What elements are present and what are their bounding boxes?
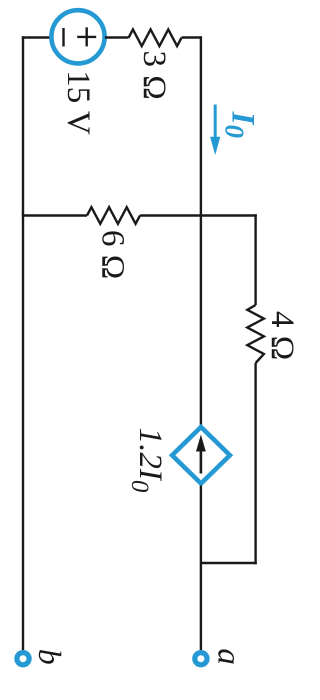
current direction arrow I0 (cyan, downward) bbox=[214, 105, 217, 139]
wire: right vertical down to diamond bbox=[200, 36, 202, 425]
wire: right branch vertical down to resistor R3 bbox=[254, 214, 256, 305]
wire: bottom joint horizontal back to main wire bbox=[201, 562, 257, 564]
wire: left vertical from top-left corner to terminal b bbox=[22, 36, 24, 650]
wire: middle horizontal right segment to right branch bbox=[140, 214, 257, 216]
svg-text:15 V: 15 V bbox=[60, 70, 96, 135]
voltage source V1 minus sign bbox=[62, 28, 64, 47]
wire: top horizontal, left stub to voltage source bbox=[22, 36, 51, 38]
svg-text:6 Ω: 6 Ω bbox=[95, 230, 131, 279]
resistor R1 3 ohm zigzag bbox=[129, 29, 182, 46]
svg-text:b: b bbox=[32, 649, 68, 665]
svg-text:a: a bbox=[210, 648, 246, 665]
voltage source V1 plus sign bbox=[77, 27, 96, 46]
terminal node b bbox=[17, 653, 29, 665]
wire: right branch below resistor down to bottom joint bbox=[254, 363, 256, 564]
wire: middle horizontal (6 ohm branch) left segment bbox=[22, 214, 87, 216]
resistor R3 4 ohm zigzag (vertical) bbox=[247, 305, 264, 363]
resistor R2 6 ohm zigzag bbox=[87, 207, 140, 224]
dependent current source I1 (diamond) bbox=[172, 427, 230, 484]
svg-text:4 Ω: 4 Ω bbox=[264, 311, 300, 360]
terminal node a bbox=[195, 653, 207, 665]
wire: main vertical below diamond to terminal a bbox=[200, 486, 202, 651]
wire: top horizontal, source to resistor R1 bbox=[105, 36, 129, 38]
svg-text:3 Ω: 3 Ω bbox=[136, 51, 172, 100]
voltage source V1 15V (circle) bbox=[51, 10, 104, 63]
dependent source I1 arrow (up) bbox=[200, 449, 203, 474]
wire: top horizontal, resistor to top-right corner bbox=[182, 36, 201, 38]
